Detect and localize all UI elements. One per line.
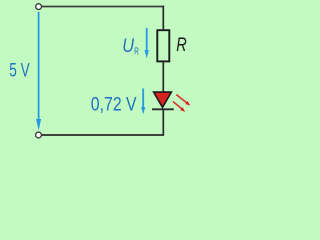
terminal - (bottom left) — [36, 132, 42, 138]
LED cathode bar — [152, 108, 174, 110]
wire top (from + terminal to resistor) — [42, 6, 164, 8]
svg-text:R: R — [134, 46, 139, 58]
svg-text:R: R — [176, 35, 187, 56]
svg-text:0,72 V: 0,72 V — [91, 94, 137, 115]
voltage arrow 0,72V — [141, 89, 145, 115]
wire right upper (down to resistor) — [162, 6, 164, 30]
voltage arrow 5V — [36, 12, 41, 131]
wire LED to bottom — [162, 109, 164, 135]
light arrow 2 — [173, 101, 185, 112]
resistor R — [157, 30, 169, 61]
LED D1 triangle — [154, 92, 172, 107]
wire bottom (back to - terminal) — [42, 134, 164, 136]
voltage arrow UR — [145, 28, 149, 59]
light arrow 1 — [176, 95, 190, 106]
terminal + (top left) — [36, 4, 42, 10]
wire resistor to LED — [162, 62, 164, 92]
svg-text:5 V: 5 V — [9, 61, 30, 82]
svg-text:U: U — [122, 36, 134, 57]
